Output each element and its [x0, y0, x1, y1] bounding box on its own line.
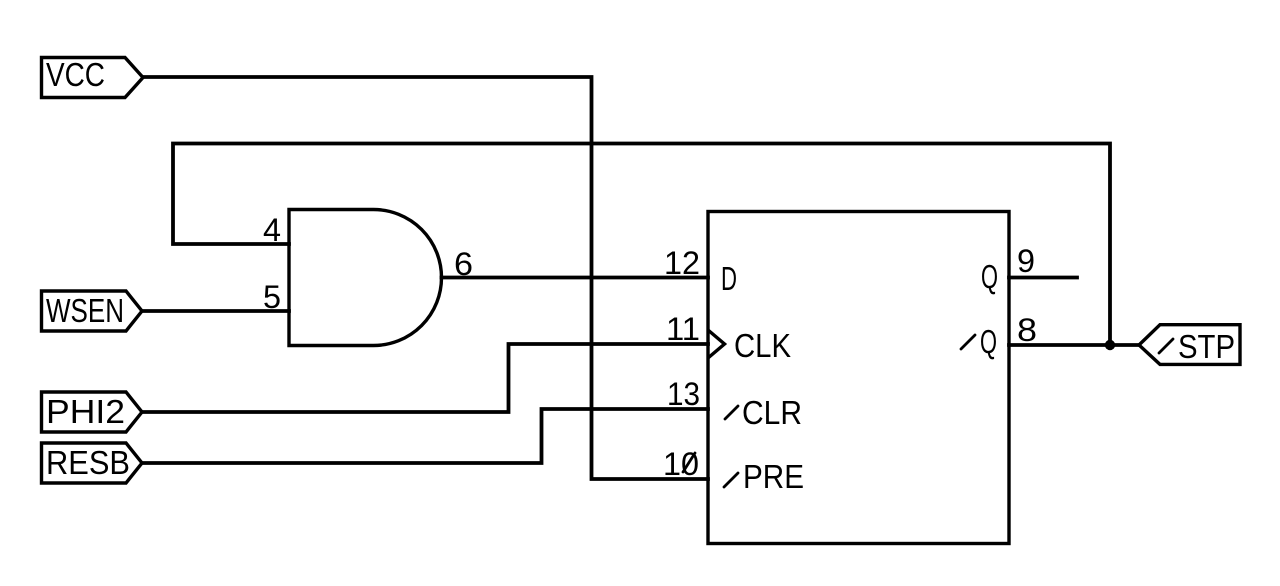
svg-text:6: 6: [454, 246, 473, 282]
svg-text:WSEN: WSEN: [46, 292, 124, 329]
svg-text:8: 8: [1017, 312, 1037, 348]
svg-text:Q: Q: [980, 323, 997, 360]
svg-text:13: 13: [667, 376, 700, 412]
svg-text:PRE: PRE: [743, 458, 804, 495]
svg-text:CLR: CLR: [742, 394, 802, 431]
svg-text:PHI2: PHI2: [46, 393, 125, 430]
svg-text:4: 4: [263, 212, 281, 248]
svg-text:9: 9: [1017, 243, 1035, 279]
svg-text:D: D: [721, 260, 737, 297]
svg-text:Q: Q: [981, 258, 998, 295]
svg-text:10: 10: [663, 446, 699, 482]
svg-text:5: 5: [263, 279, 281, 315]
svg-text:12: 12: [664, 245, 700, 281]
svg-text:11: 11: [666, 311, 700, 347]
svg-text:VCC: VCC: [46, 56, 105, 93]
svg-text:STP: STP: [1178, 328, 1235, 365]
svg-text:RESB: RESB: [46, 444, 130, 481]
svg-text:CLK: CLK: [734, 327, 791, 364]
